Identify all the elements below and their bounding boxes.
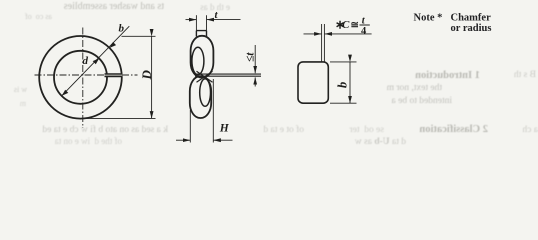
b arrowhead on outer circle [110,42,117,48]
svg-text:C: C [342,19,350,31]
gap lower line [195,75,261,77]
svg-text:Note *: Note * [414,13,443,24]
t dimension left arrow [186,19,197,21]
svg-text:4: 4 [361,26,367,37]
gap dimension lower arrow [254,77,256,86]
H right extension line [212,79,214,143]
svg-text:b: b [119,23,125,35]
side view top coil outer oval [191,36,214,78]
horizontal centerline [35,74,138,76]
ghost bleed-through: 2 Classification [368,124,488,135]
vertical centerline [82,28,84,129]
H dimension right arrow [214,139,233,141]
gap upper line [195,73,261,75]
chamfer leader with arrow [325,33,372,35]
split crossing stroke 2 [197,71,213,82]
ghost bleed-through: top-left fragment [2,12,52,21]
d-b diagonal dimension line [62,26,130,96]
t dimension right arrow [207,19,241,21]
ghost bleed-through: the text, nor [368,83,442,93]
d arrowhead lower-left [62,90,69,96]
ghost bleed-through: bottom-left line 2 [2,136,122,146]
side view top wire end cap [196,31,206,37]
svg-text:D: D [139,70,154,81]
svg-text:b: b [336,82,350,88]
chamfer left extension line [321,24,323,62]
split slit fill [105,74,123,77]
svg-text:d: d [83,55,89,67]
side view top coil inner oval [192,47,204,75]
split crossing stroke 1 [197,71,213,82]
H dimension left arrow [176,139,190,141]
ghost bleed-through: top line right tail [166,2,230,12]
ghost bleed-through: 1 Introduction [368,70,480,81]
svg-text:H: H [219,123,230,135]
ghost bleed-through: right of H fragment [228,125,304,135]
wire cross-section rounded square [298,62,328,103]
split slit upper edge [105,73,123,75]
svg-text:≅: ≅ [351,20,359,31]
split slit lower edge [105,76,123,78]
chamfer left arrow [304,33,322,35]
ghost bleed-through: intended to be a [368,96,452,106]
fraction bar of t/4 [360,24,370,26]
t left extension line [195,15,197,31]
D bottom extension line [85,117,156,119]
svg-text:Chamfer: Chamfer [451,13,492,24]
b top extension line [330,61,357,63]
ghost bleed-through: classification line left tail [302,125,384,135]
b bottom extension line [330,102,357,104]
ghost bleed-through: bottom mid fragment [284,137,406,147]
b dimension line [349,62,351,103]
side view bottom coil outer oval [190,76,211,118]
gap dimension upper arrow [254,45,256,73]
ghost bleed-through: classification line right tail [492,125,538,135]
chamfer right extension line [323,24,325,62]
D top extension line [122,35,156,37]
H left extension line [189,110,191,143]
side view bottom coil inner oval [200,79,211,107]
washer outer circle [39,36,122,119]
t right extension line [206,15,208,31]
ghost bleed-through: bottom-left line [2,125,168,135]
ghost bleed-through: left edge specks [3,85,27,94]
d arrowhead upper-right [93,58,100,64]
svg-text:≤t: ≤t [245,52,257,62]
D dimension line [151,36,153,118]
washer inner circle [54,51,107,104]
ghost bleed-through text: top line "and washer assemblies" [14,1,164,12]
ghost bleed-through: intro line right tail [484,70,536,80]
svg-text:or radius: or radius [451,23,492,34]
